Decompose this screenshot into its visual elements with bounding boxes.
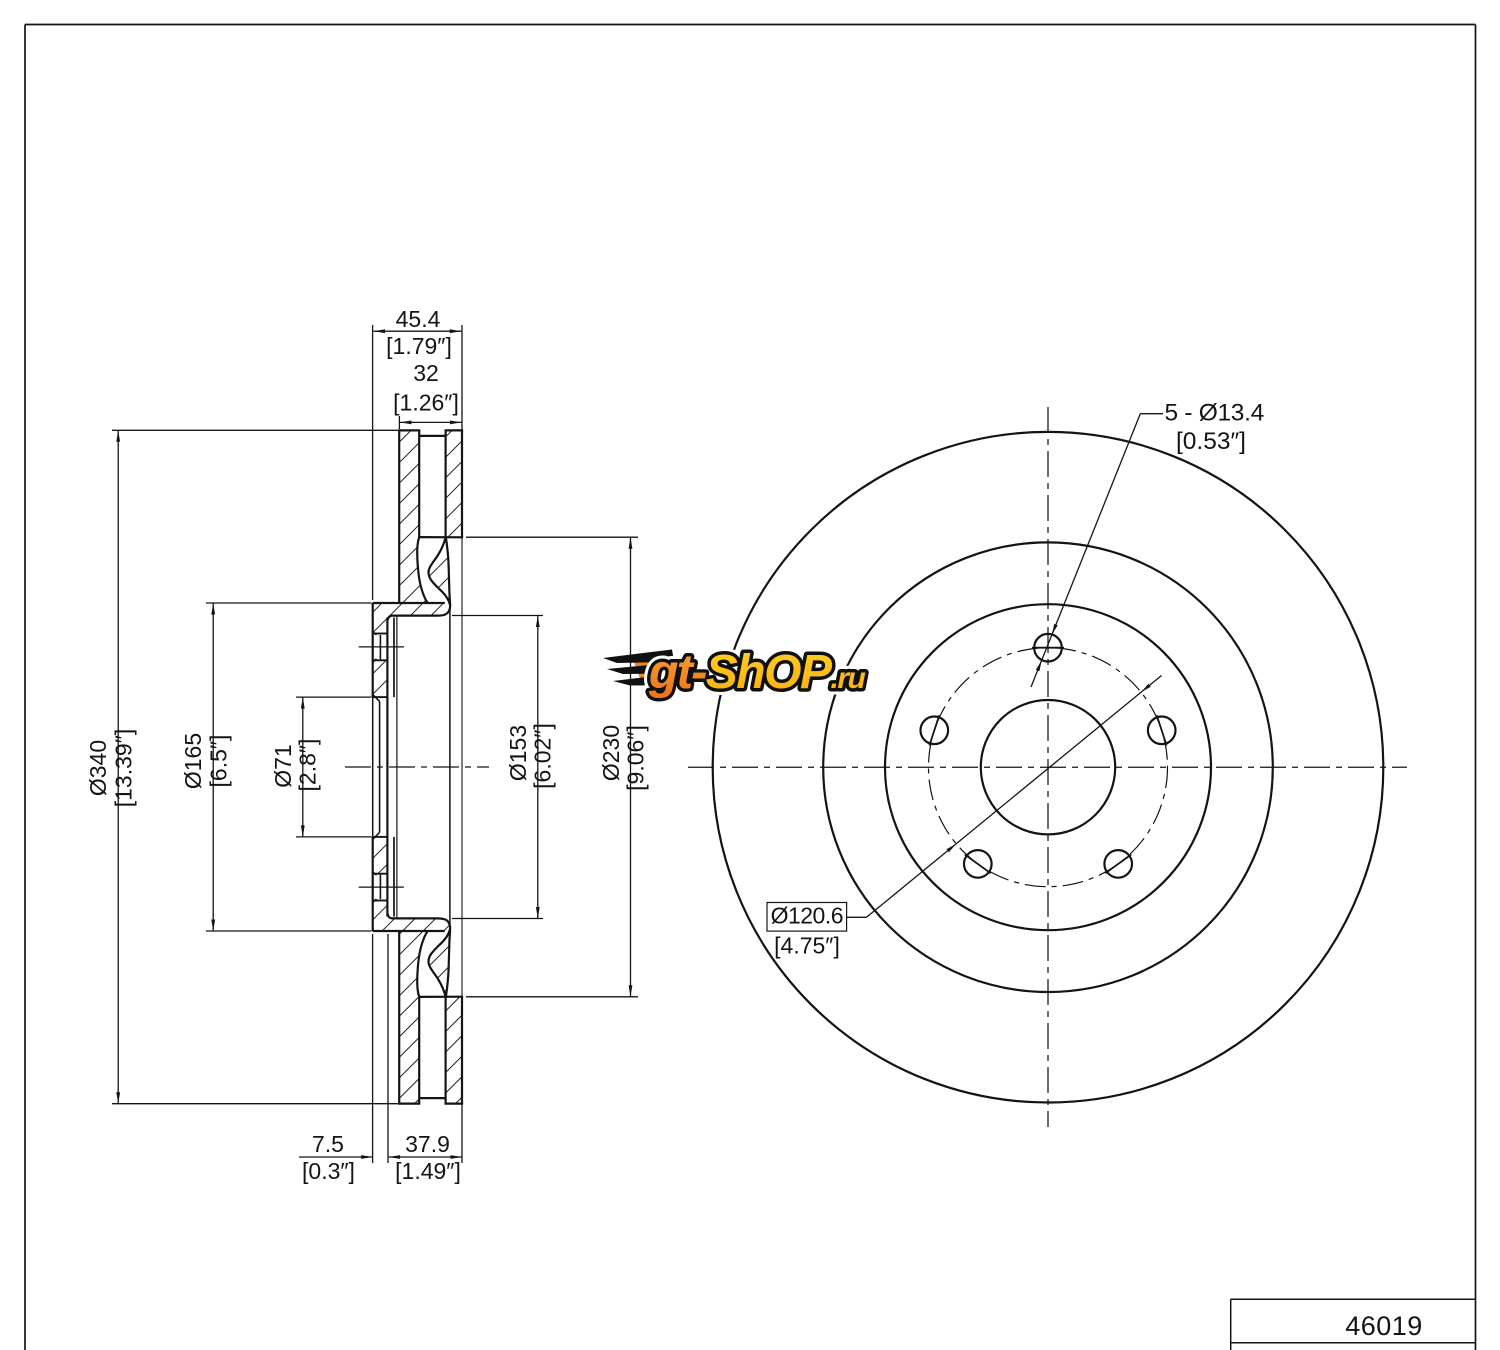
section: plate OD edges top <box>398 429 420 431</box>
front: bolt hole top <box>1034 634 1062 662</box>
section: flange bolt hole bottom edge <box>373 659 388 661</box>
section: flange mounting face <box>372 603 374 697</box>
section hatch: outboard plate (top half) <box>399 430 428 603</box>
dim 37.9 line <box>389 1156 462 1158</box>
title block <box>1231 1298 1476 1300</box>
section: vent top / plate inner edge (bottom half) <box>418 996 463 998</box>
extension line Ø230 bottom <box>466 996 638 998</box>
front: bolt hole upper-right <box>1148 717 1176 745</box>
extension line OD top <box>112 429 398 431</box>
svg-text:[1.49″]: [1.49″] <box>395 1158 461 1184</box>
svg-text:45.4: 45.4 <box>396 306 441 332</box>
section: vent bottom / plate inner edge (top half) <box>418 536 463 538</box>
section: swan neck outer curve and crown top (bottom) <box>388 914 450 997</box>
front: bolt hole upper-left <box>921 717 949 745</box>
dim Ø165 line <box>212 603 214 931</box>
logo speed wing <box>603 650 688 690</box>
svg-text:[2.8″]: [2.8″] <box>295 739 321 792</box>
section: flange bolt hole chamfers <box>373 632 377 635</box>
extension line Ø153 top <box>452 615 543 617</box>
section hatch: flange above bolt hole <box>373 603 388 634</box>
extension line Ø165 bottom <box>206 930 372 932</box>
svg-text:[6.5″]: [6.5″] <box>206 735 232 788</box>
section: bolt hole centerline (top) <box>359 646 404 648</box>
svg-text:Ø165: Ø165 <box>180 733 206 789</box>
section: swan neck inner curve (bottom) <box>429 930 450 997</box>
svg-text:37.9: 37.9 <box>405 1131 450 1157</box>
svg-text:32: 32 <box>413 360 439 386</box>
extension line bottom inboard face <box>461 1104 463 1163</box>
section hatch: flange below bolt hole <box>373 660 388 697</box>
section hatch: inboard plate (top half) <box>446 430 462 537</box>
section: center bore top edge <box>373 696 388 698</box>
svg-text:[9.06″]: [9.06″] <box>623 725 649 791</box>
section hatch: flange below bolt hole (bottom half) <box>373 901 388 932</box>
section hatch: flange above bolt hole (bottom half) <box>373 837 388 874</box>
front view horizontal centerline <box>688 766 1407 768</box>
dim Ø153 line <box>537 616 539 919</box>
svg-text:[13.39″]: [13.39″] <box>111 729 137 807</box>
section: horizontal centerline <box>345 766 489 768</box>
extension line Ø71 top <box>296 696 372 698</box>
section: bolt hole centerline (bottom) <box>359 886 404 888</box>
section: plate OD edges bottom <box>398 1102 420 1104</box>
section: hat crown bottom face (bottom half) <box>373 930 445 932</box>
section hatch: inboard plate (bottom half) <box>446 997 462 1104</box>
logo text gt-shop.ru <box>648 646 865 699</box>
section hatch: outboard plate (bottom half) <box>399 931 428 1104</box>
extension line bottom flange inner <box>387 934 389 1163</box>
svg-text:gt-: gt- <box>648 646 706 699</box>
section: flange bolt hole bore line <box>379 635 381 660</box>
section: swan neck curl silhouette <box>449 607 451 927</box>
svg-text:Ø230: Ø230 <box>598 725 624 781</box>
label Ø120.6 box <box>767 903 847 932</box>
svg-text:5 - Ø13.4: 5 - Ø13.4 <box>1165 400 1264 427</box>
extension line 45.4 left <box>372 325 374 600</box>
extension line bottom left face <box>372 934 374 1163</box>
extension line 32 left <box>398 416 400 429</box>
section hatch: hat crown (top half) <box>387 603 450 620</box>
front: bolt hole lower-right <box>1104 850 1132 878</box>
section: bore chamfer silhouette <box>379 701 381 832</box>
svg-text:[6.02″]: [6.02″] <box>530 723 556 789</box>
extension line OD bottom <box>112 1103 398 1105</box>
svg-text:46019: 46019 <box>1345 1311 1423 1341</box>
section: undercut groove left wall (top) <box>417 537 428 603</box>
section: vent slot bottom cap <box>419 1097 445 1099</box>
section: inboard friction face <box>461 430 463 537</box>
front: center bore Ø71 <box>981 700 1115 834</box>
section: bore chamfer diagonals <box>373 695 380 702</box>
front: outer circle Ø340 <box>713 432 1384 1103</box>
dim Ø230 line <box>630 537 632 997</box>
svg-text:Ø340: Ø340 <box>85 740 111 796</box>
dim 45.4 line <box>374 330 462 332</box>
section: flange bolt hole bore line (bottom) <box>379 875 381 900</box>
extension line Ø230 top <box>466 536 638 538</box>
dim 32 line <box>400 421 462 423</box>
front: hat circle Ø165 <box>885 604 1211 930</box>
section hatch: hat crown (bottom half) <box>387 915 450 932</box>
section: vent slot top cap <box>419 435 445 437</box>
section hatch: swan neck (bottom half) <box>429 930 451 997</box>
front: bolt hole lower-left <box>964 850 992 878</box>
extension line Ø165 top <box>206 602 372 604</box>
section: crown inner corner silhouette <box>393 618 395 698</box>
svg-text:Ø71: Ø71 <box>270 744 296 787</box>
section: hat crown top face (top half) <box>373 602 445 604</box>
dim Ø340 line <box>117 430 119 1103</box>
section: undercut groove left wall (bottom) <box>417 931 428 997</box>
section: vent slot right wall <box>445 430 447 537</box>
svg-text:Ø153: Ø153 <box>505 725 531 781</box>
extension line Ø71 bottom <box>296 836 372 838</box>
extension line Ø153 bottom <box>452 918 543 920</box>
section: flange inner face <box>386 618 388 917</box>
border frame <box>25 24 1476 26</box>
svg-text:[4.75″]: [4.75″] <box>774 933 840 959</box>
svg-text:[0.3″]: [0.3″] <box>302 1158 355 1184</box>
svg-text:Ø120.6: Ø120.6 <box>771 903 843 929</box>
section: crown fillet silhouette <box>396 616 398 919</box>
section: flange bolt hole chamfers (bottom) <box>373 899 377 902</box>
section: flange bolt hole edges (bottom) <box>373 900 388 902</box>
section: vent slot right wall (bottom) <box>445 997 447 1104</box>
svg-text:[0.53″]: [0.53″] <box>1176 428 1246 455</box>
label Ø120.6 leader <box>847 916 867 918</box>
front: braking band inner circle Ø230 <box>823 542 1273 992</box>
front view vertical centerline <box>1047 407 1049 1127</box>
extension line 45.4/32 right <box>461 325 463 430</box>
section: center bore bottom edge <box>373 836 388 838</box>
section: inboard friction face (bottom) <box>461 997 463 1104</box>
svg-text:[1.79″]: [1.79″] <box>386 333 452 359</box>
section: outboard friction face <box>398 430 400 603</box>
section: inboard face between halves <box>461 537 463 996</box>
section: flange bolt hole top edge <box>373 633 388 635</box>
dim 7.5 line <box>299 1156 373 1158</box>
section: swan neck outer curve and crown bottom (top) <box>388 537 450 620</box>
section: outboard friction face (bottom) <box>398 931 400 1104</box>
dim Ø71 line <box>302 697 304 837</box>
section: vent slot left wall (bottom) <box>418 997 420 1104</box>
label 5-Ø13.4 leader <box>1031 414 1140 687</box>
front: bolt circle Ø120.6 (dash-dot) <box>929 648 1168 887</box>
section: vent slot left wall <box>418 430 420 537</box>
svg-text:[1.26″]: [1.26″] <box>393 390 459 416</box>
section: swan neck inner curve (top) <box>429 537 450 604</box>
section hatch: swan neck (top half) <box>429 537 451 604</box>
svg-text:7.5: 7.5 <box>312 1131 344 1157</box>
